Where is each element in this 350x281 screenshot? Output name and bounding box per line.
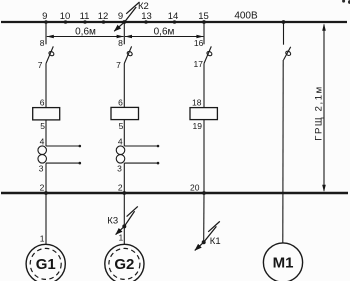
svg-text:8: 8 xyxy=(40,38,45,48)
svg-text:5: 5 xyxy=(40,121,45,131)
node 20 junction (drop3 / lower bus) xyxy=(202,191,206,195)
node 11 xyxy=(83,20,87,24)
svg-text:16: 16 xyxy=(194,38,204,48)
dimension ГРЩ 2,1м (vertical) xyxy=(323,25,325,191)
svg-text:18: 18 xyxy=(192,97,202,107)
breaker QF3 (drop3) xyxy=(204,46,211,63)
svg-text:11: 11 xyxy=(80,11,90,22)
wire drop1 stub (node 8) xyxy=(45,22,47,44)
wire drop2 (node 5 to 4) xyxy=(123,120,125,146)
wire drop4 stub (M1 feeder) xyxy=(283,22,285,45)
wire drop2 (node 3 to 2) xyxy=(123,163,125,193)
generator G2 xyxy=(105,244,144,281)
svg-text:8: 8 xyxy=(118,38,123,48)
svg-text:G1: G1 xyxy=(36,256,56,273)
node 2 junction (drop1 / lower bus) xyxy=(44,191,48,195)
svg-text:1: 1 xyxy=(118,232,123,242)
wire drop2 (node 2 to 1 / G2) xyxy=(123,193,125,244)
wire drop1 (node 3 to 2) xyxy=(45,163,47,193)
node 9 xyxy=(44,20,48,24)
node 14 xyxy=(173,20,177,24)
reactor coil (drop1, nodes 4-3) xyxy=(38,146,47,155)
svg-text:G2: G2 xyxy=(114,256,134,273)
tap wire at node 3 (drop2) xyxy=(124,162,158,164)
bus lower busbar (ГРЩ) xyxy=(1,192,348,194)
dimension line 0,6м (span node9 - node9') xyxy=(47,36,124,38)
scan artifact top-right corner xyxy=(342,0,345,3)
wire drop3 stub (node 16) xyxy=(203,22,205,44)
tap wire at node 3 xyxy=(46,162,80,164)
wire drop2 stub (node 8) xyxy=(123,22,125,44)
wire drop2 (node 7 to 6) xyxy=(123,64,125,108)
node 9 (fault point K2 on bus) xyxy=(122,20,126,24)
wire drop3 (node 19 to 20) xyxy=(203,120,205,193)
svg-text:10: 10 xyxy=(60,11,71,22)
contactor box (drop2, nodes 6-5) xyxy=(111,107,139,119)
svg-text:9: 9 xyxy=(42,11,47,22)
tap wire at node 4 (drop2) xyxy=(124,145,158,147)
svg-text:7: 7 xyxy=(38,60,43,70)
wire drop3 (node 17 to 18) xyxy=(203,64,205,108)
svg-text:ГРЩ 2,1м: ГРЩ 2,1м xyxy=(314,85,325,141)
node 13 xyxy=(144,20,148,24)
svg-text:14: 14 xyxy=(168,11,179,22)
svg-text:2: 2 xyxy=(40,183,45,193)
node 12 xyxy=(102,20,106,24)
svg-text:12: 12 xyxy=(98,11,109,22)
svg-text:7: 7 xyxy=(116,60,121,70)
wire drop3 below bus (to fault K1) xyxy=(203,193,205,242)
svg-text:0,6м: 0,6м xyxy=(75,26,96,37)
node 15 xyxy=(202,20,206,24)
motor M1 xyxy=(263,243,302,281)
contactor box (drop1, nodes 6-5) xyxy=(33,108,60,120)
breaker QF2 (drop2) xyxy=(124,46,131,63)
svg-text:6: 6 xyxy=(40,97,45,107)
svg-text:3: 3 xyxy=(117,163,122,173)
svg-text:5: 5 xyxy=(119,121,124,131)
breaker QF1 (drop1) xyxy=(46,46,53,63)
svg-text:400В: 400В xyxy=(234,11,258,22)
wire drop1 (node 7 to 6) xyxy=(45,64,47,108)
wire drop4 (breaker to M1) xyxy=(282,60,284,243)
tap wire at node 4 xyxy=(46,145,80,147)
fault K1 lightning arrow xyxy=(208,221,220,231)
svg-text:13: 13 xyxy=(141,11,152,22)
svg-text:9: 9 xyxy=(118,11,123,22)
breaker QF4 (drop4) xyxy=(284,47,291,60)
svg-text:4: 4 xyxy=(40,136,45,146)
generator G1 xyxy=(26,244,65,281)
node 10 xyxy=(64,20,68,24)
reactor coil (drop2, nodes 4-3) xyxy=(116,146,125,155)
svg-text:2: 2 xyxy=(118,183,123,193)
fault K1 point xyxy=(202,240,206,244)
fault K3 lightning arrow xyxy=(127,206,138,216)
svg-text:19: 19 xyxy=(193,121,203,131)
node 2 junction (drop2 / lower bus) xyxy=(122,191,126,195)
fault K3 point on drop2 xyxy=(122,224,126,228)
svg-text:4: 4 xyxy=(118,136,123,146)
dimension line 0,6м (span node9' - node15) xyxy=(125,36,203,38)
svg-text:15: 15 xyxy=(198,11,209,22)
svg-text:К2: К2 xyxy=(138,1,149,12)
svg-text:К1: К1 xyxy=(210,236,221,247)
svg-text:М1: М1 xyxy=(273,255,294,272)
fault K2 lightning arrow xyxy=(126,2,139,14)
wire drop1 (node 2 to 1 / G1) xyxy=(45,193,47,244)
bus 400V top busbar xyxy=(1,21,347,23)
svg-text:1: 1 xyxy=(40,234,45,244)
contactor box (drop3, nodes 18-19) xyxy=(190,108,217,120)
svg-text:17: 17 xyxy=(194,59,204,69)
svg-text:0,6м: 0,6м xyxy=(154,26,175,37)
svg-text:6: 6 xyxy=(118,97,123,107)
svg-text:3: 3 xyxy=(39,163,44,173)
node (M1 feeder tap) xyxy=(282,20,286,24)
svg-text:К3: К3 xyxy=(107,216,118,227)
svg-text:20: 20 xyxy=(190,183,200,193)
wire drop1 (node 5 to 4) xyxy=(45,120,47,146)
